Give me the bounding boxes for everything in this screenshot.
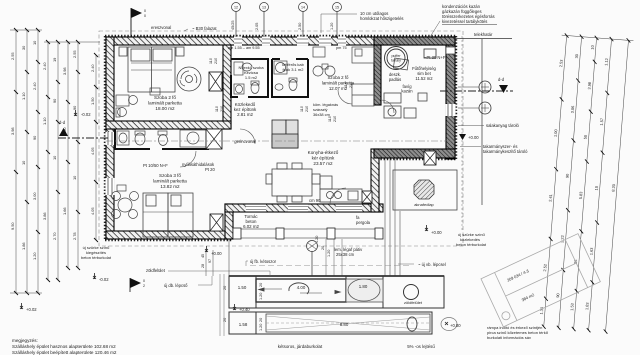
bedroom1 desk and chairs (116, 88, 160, 117)
interior wall bedroom1 east (223, 45, 231, 129)
top wall (106, 37, 455, 45)
hallway label (234, 102, 257, 117)
shaft with X in boiler room (424, 151, 436, 165)
svg-text:1.20: 1.20 (259, 324, 263, 331)
svg-text:5% -os lejtésű: 5% -os lejtésű (407, 344, 435, 349)
top axis circles (232, 3, 342, 38)
svg-text:13.82 m2: 13.82 m2 (160, 184, 180, 189)
ramp spiral arrows (259, 283, 340, 294)
left text block: new pavement (81, 245, 112, 260)
svg-text:1.5 m2: 1.5 m2 (245, 75, 258, 80)
shaft with X next to bathroom3 (206, 129, 222, 149)
svg-text:cm 90: cm 90 (309, 198, 321, 203)
rotated site rectangle (481, 234, 600, 327)
svg-text:12: 12 (234, 6, 238, 10)
boiler room labels (389, 55, 446, 94)
svg-text:új db. lépcső: új db. lépcső (164, 283, 188, 288)
svg-text:1.20: 1.20 (327, 250, 331, 257)
door arc entry from porch (330, 188, 346, 204)
svg-text:1.00: 1.00 (553, 128, 559, 137)
vent duct label (313, 102, 338, 117)
svg-text:4.05: 4.05 (90, 147, 95, 155)
+0.80 marker right (441, 318, 461, 331)
door arc bedroom2 (338, 90, 352, 104)
svg-text:beton térburkolat: beton térburkolat (456, 242, 487, 247)
d-d section left (58, 120, 110, 138)
WC room label (238, 65, 264, 80)
exterior insulation teeth top wall (105, 35, 456, 37)
interior wall bedroom1/bath south (106, 121, 231, 129)
exterior insulation teeth right wall (455, 36, 457, 159)
+0.40 marker (233, 304, 250, 312)
svg-text:1.53: 1.53 (569, 303, 575, 311)
svg-text:1.57: 1.57 (599, 118, 605, 126)
svg-text:telekhatár: telekhatár (474, 32, 493, 37)
svg-text:3.00: 3.00 (32, 192, 37, 200)
svg-text:110: 110 (328, 116, 332, 122)
svg-text:18.00 m2: 18.00 m2 (155, 106, 175, 111)
svg-text:110: 110 (300, 106, 304, 112)
svg-text:takarmánykeszítő tároló: takarmánykeszítő tároló (483, 149, 528, 154)
kitchen label (308, 150, 339, 166)
ramp structure outer top strip (229, 276, 444, 308)
leader line along porch base (250, 265, 412, 267)
window right wall (446, 104, 456, 116)
svg-text:8.20: 8.20 (611, 183, 617, 192)
ramp top strip right cell ellipse (346, 279, 383, 302)
+0.00 marker below pergola (425, 225, 442, 235)
+0.02 marker top-left of dd (74, 110, 91, 117)
svg-text:fpok 3.1 m2: fpok 3.1 m2 (283, 67, 305, 72)
shaft with X in kitchen east (362, 191, 372, 203)
ridge line gerincvonal (106, 140, 455, 142)
ramp internal dim stack (223, 283, 263, 331)
bedroom1 label (148, 95, 182, 111)
fa pergola label (356, 215, 371, 225)
svg-text:23.57 m2: 23.57 m2 (313, 161, 333, 166)
svg-text:0: 0 (144, 14, 146, 18)
exterior insulation teeth bottom-right wall (374, 158, 456, 160)
svg-text:d-d: d-d (59, 120, 66, 125)
bedroom3 table and chairs (112, 185, 139, 219)
bedroom3 twin beds (143, 193, 193, 237)
porch top wall (kitchen south wall) (225, 204, 383, 212)
svg-text:1.63: 1.63 (589, 247, 595, 255)
svg-text:20: 20 (223, 318, 227, 322)
+0.00 triangle near right wall (459, 134, 479, 140)
bathroom3 fixtures (117, 130, 206, 147)
takarmany labels (483, 144, 528, 154)
shower room walls (272, 59, 308, 97)
left chain numbers (10, 40, 95, 260)
svg-text:padlás: padlás (389, 77, 401, 82)
svg-text:-0.02: -0.02 (81, 112, 91, 117)
svg-text:1.80: 1.80 (359, 284, 368, 289)
ramp slope faint lines (266, 316, 430, 330)
svg-text:210: 210 (305, 106, 309, 112)
svg-text:210: 210 (214, 58, 218, 64)
boiler room puffer tank (385, 47, 408, 70)
svg-text:110: 110 (344, 82, 348, 88)
svg-text:1.12: 1.12 (603, 58, 609, 66)
svg-text:1.20: 1.20 (330, 23, 334, 30)
svg-text:19: 19 (52, 58, 57, 62)
kitchen table with chairs (266, 163, 320, 202)
svg-text:2.05: 2.05 (255, 23, 259, 30)
svg-text:am 1.55 – am 9.55: am 1.55 – am 9.55 (228, 46, 260, 50)
svg-text:zöldfelület: zöldfelület (404, 300, 423, 305)
bottom-left notes block (12, 338, 117, 355)
svg-text:13: 13 (262, 6, 266, 10)
bathroom3 walls (115, 129, 208, 149)
kitchen counter (320, 176, 362, 202)
svg-text:5.83: 5.83 (578, 191, 584, 199)
window left wall upper (106, 132, 115, 145)
bottom center dim stack (206, 250, 213, 276)
boiler room equipment (384, 93, 427, 118)
svg-text:1.58: 1.58 (239, 322, 248, 327)
svg-text:110: 110 (209, 58, 213, 64)
ramp left edge connector (228, 240, 230, 276)
ramp lower strip (229, 312, 432, 334)
svg-text:11.52 m2: 11.52 m2 (415, 76, 433, 81)
manhole cover octagon (414, 180, 435, 207)
svg-text:2.55: 2.55 (72, 50, 77, 58)
WC room walls (middle block) (231, 59, 268, 97)
svg-text:28: 28 (201, 264, 205, 268)
svg-text:~ B30 falazat: ~ B30 falazat (192, 26, 217, 31)
green circle (404, 285, 419, 300)
svg-text:6.02 m2: 6.02 m2 (243, 224, 259, 229)
door arc boiler room (381, 100, 394, 113)
svg-text:2.53: 2.53 (558, 59, 564, 67)
svg-text:1.20: 1.20 (32, 252, 37, 260)
svg-text:-0.02: -0.02 (99, 277, 109, 282)
svg-text:kazán: kazán (401, 89, 413, 94)
svg-text:Szálláshely épület hasznos al: Szálláshely épület hasznos alapterülete … (12, 344, 116, 349)
boiler room west wall (374, 45, 381, 105)
svg-text:homlokzat hőszigetelés: homlokzat hőszigetelés (360, 16, 404, 21)
svg-text:megjegyzés:: megjegyzés: (12, 338, 38, 343)
exterior insulation teeth bottom-left wall (105, 239, 233, 241)
gas meter circles (458, 81, 491, 114)
svg-text:2.40: 2.40 (32, 82, 37, 90)
door dim stacks (209, 58, 353, 122)
lem. dim stack (315, 236, 331, 257)
left dimension chains (10, 30, 100, 293)
lem. legal label (334, 247, 363, 257)
svg-text:Konyha-étkező: Konyha-étkező (308, 150, 339, 155)
windows top wall (234, 37, 346, 46)
flag marker bottom (130, 278, 145, 292)
svg-text:Szoba 3 fő: Szoba 3 fő (159, 173, 181, 178)
svg-text:25x38 cm: 25x38 cm (336, 252, 355, 257)
right text: new pavement (456, 232, 487, 247)
svg-text:0: 0 (143, 279, 145, 283)
svg-text:kivezetéssel tartálykötés: kivezetéssel tartálykötés (442, 19, 487, 24)
svg-text:210: 210 (220, 106, 224, 112)
svg-text:20: 20 (259, 283, 263, 287)
svg-text:97: 97 (208, 259, 212, 263)
svg-text:+0.02: +0.02 (26, 307, 37, 312)
svg-text:Szálláshely épület beépített a: Szálláshely épület beépített alapterület… (12, 350, 117, 355)
bedroom3 label (153, 173, 187, 189)
svg-text:3.98: 3.98 (62, 67, 67, 75)
bedroom2 label (322, 75, 355, 91)
svg-text:1.20: 1.20 (259, 293, 263, 300)
ramp left outer guide lines (219, 274, 221, 336)
right block east wall (446, 37, 455, 159)
svg-text:2: 2 (143, 284, 145, 288)
pergola post lines (385, 159, 400, 276)
ramp dims (238, 284, 368, 327)
svg-text:zöldfelület: zöldfelület (146, 268, 166, 273)
svg-text:210: 210 (333, 116, 337, 122)
svg-text:pergola: pergola (356, 220, 371, 225)
svg-text:1.66: 1.66 (62, 207, 67, 215)
svg-text:1.86: 1.86 (21, 242, 26, 250)
svg-text:gerincvonal: gerincvonal (234, 139, 255, 144)
svg-text:pm 75: pm 75 (336, 46, 347, 50)
kondenzacios kazan note (442, 4, 497, 25)
svg-text:2.55: 2.55 (10, 52, 15, 60)
svg-text:d-d: d-d (498, 77, 505, 82)
windows porch top wall (246, 205, 362, 212)
svg-text:1.83: 1.83 (584, 302, 590, 310)
svg-text:4.05: 4.05 (90, 207, 95, 215)
eaves dashed outline (ereszvonal) (99, 31, 463, 246)
porch label (243, 214, 259, 229)
svg-text:ereszvonal: ereszvonal (151, 25, 171, 30)
svg-text:salakanyag tároló: salakanyag tároló (486, 123, 519, 128)
d-d section right (440, 77, 513, 93)
+0.00 marker below porch (205, 246, 222, 256)
porch columns row (233, 228, 383, 239)
svg-text:2.81 m2: 2.81 m2 (237, 112, 253, 117)
svg-text:4.00: 4.00 (297, 285, 306, 290)
left chain ticks (14, 28, 98, 295)
svg-text:1.50: 1.50 (238, 285, 247, 290)
kitchen east wall (371, 149, 379, 212)
svg-text:~ új vb. lépcsel: ~ új vb. lépcsel (418, 262, 446, 267)
svg-text:~Pt 30 N+F: ~Pt 30 N+F (424, 55, 446, 60)
svg-text:45/25: 45/25 (231, 20, 235, 30)
svg-text:laminált parketta: laminált parketta (153, 179, 187, 184)
svg-text:burkolati információs sáv: burkolati információs sáv (487, 335, 531, 340)
shower room label (282, 62, 305, 72)
bedroom1 double bed (119, 47, 184, 92)
svg-text:20: 20 (259, 318, 263, 322)
hall cabinets block (272, 120, 298, 148)
svg-text:1.10: 1.10 (42, 117, 47, 125)
+0.02 marker far left (20, 303, 37, 312)
-0.02 marker left (93, 273, 109, 282)
svg-text:kér építünk: kér építünk (312, 156, 335, 161)
svg-text:Pt 20: Pt 20 (205, 167, 215, 172)
bottom wall of bedroom3 (106, 231, 233, 239)
svg-text:1.10: 1.10 (21, 92, 26, 100)
svg-text:8.80: 8.80 (340, 322, 349, 327)
svg-text:laminált parketta: laminált parketta (148, 101, 182, 106)
left wall (106, 37, 114, 239)
exterior insulation teeth left wall (104, 36, 106, 240)
svg-text:2.40: 2.40 (90, 64, 95, 72)
svg-text:új fb. kétoszor: új fb. kétoszor (250, 259, 277, 264)
top-left flag marker (131, 8, 146, 37)
right block top wall overlay (374, 37, 455, 45)
svg-text:3.06: 3.06 (570, 105, 576, 113)
svg-text:+0.00: +0.00 (431, 230, 442, 235)
svg-text:210: 210 (349, 82, 353, 88)
svg-text:0: 0 (144, 9, 146, 13)
WC room fixtures (234, 62, 259, 94)
svg-text:20: 20 (223, 286, 227, 290)
svg-text:2.50: 2.50 (298, 23, 302, 30)
svg-text:9.50: 9.50 (10, 222, 15, 230)
vertical leader lines below porch (326, 239, 342, 276)
svg-text:Szoba 2 fő: Szoba 2 fő (154, 95, 176, 100)
ramp end ellipse (407, 317, 417, 331)
svg-text:Pt 10/50 N+F: Pt 10/50 N+F (143, 163, 168, 168)
svg-text:3.98: 3.98 (586, 82, 592, 90)
shaft with X at bedroom1 SE (209, 72, 222, 91)
svg-text:14: 14 (301, 6, 305, 10)
svg-text:2.70: 2.70 (52, 232, 57, 240)
bedroom2 furniture (313, 47, 409, 106)
svg-text:3.86: 3.86 (42, 212, 47, 220)
svg-text:15: 15 (335, 6, 339, 10)
right dimension chains slanted (538, 33, 634, 334)
bottom-right info text (487, 325, 549, 340)
svg-text:Szoba 2 fő: Szoba 2 fő (328, 75, 350, 80)
door arc bedroom3 (180, 151, 196, 167)
svg-text:+0.00: +0.00 (211, 251, 222, 256)
svg-text:3.98: 3.98 (10, 127, 15, 135)
svg-text:beton térburkolat: beton térburkolat (81, 255, 112, 260)
10cm insulation note (360, 11, 404, 21)
svg-text:2.52: 2.52 (542, 264, 548, 272)
svg-text:+0.80: +0.80 (450, 323, 461, 328)
small box in right wall (446, 47, 455, 54)
svg-text:110: 110 (215, 106, 219, 112)
svg-text:kétsoros, járdaburkolat: kétsoros, járdaburkolat (278, 344, 323, 349)
svg-text:aknafedlap: aknafedlap (414, 202, 434, 207)
svg-text:20: 20 (321, 246, 325, 250)
boiler small box top (424, 49, 436, 58)
svg-text:45: 45 (201, 254, 205, 258)
svg-text:2.78: 2.78 (72, 232, 77, 240)
svg-text:puffer: puffer (391, 54, 401, 58)
svg-text:1.50: 1.50 (90, 97, 95, 105)
svg-text:2.41: 2.41 (548, 194, 554, 202)
svg-text:+0.00: +0.00 (468, 135, 479, 140)
svg-text:+0.40: +0.40 (239, 307, 250, 312)
right block south wall (374, 149, 455, 158)
door arc bedroom1 (240, 129, 255, 144)
bedroom1 plant circle (177, 67, 201, 91)
porch west wall (225, 204, 233, 239)
column axis marker circle (307, 241, 318, 277)
svg-text:2.40: 2.40 (42, 62, 47, 70)
window left wall lower (106, 178, 115, 195)
courtyard slab rect right (393, 170, 457, 210)
shower room fixtures (274, 61, 297, 91)
shaft with X at porch corner (210, 214, 223, 231)
svg-text:tartály: tartály (391, 59, 401, 63)
